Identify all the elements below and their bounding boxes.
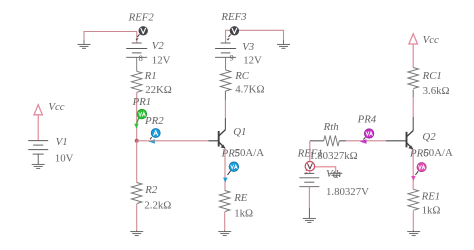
battery V3	[215, 43, 236, 57]
svg-text:RE: RE	[233, 192, 248, 204]
resistor RC1	[408, 68, 419, 89]
wire R2 to ground	[136, 204, 138, 231]
svg-text:Q1: Q1	[233, 126, 246, 138]
ground (REF3 net, top-middle)	[277, 44, 290, 48]
ground (REF2 net, top-left)	[78, 44, 91, 48]
svg-text:1.80327V: 1.80327V	[326, 186, 369, 198]
probe PR2	[148, 129, 160, 144]
svg-text:1kΩ: 1kΩ	[422, 205, 441, 217]
wire node A to Q1 base	[137, 140, 209, 142]
svg-text:V1: V1	[56, 136, 68, 148]
wire REF3 net: V3 top to ground	[226, 30, 284, 44]
wire Vth to ground	[308, 187, 310, 219]
power flag Vcc (right)	[409, 34, 418, 68]
wire V3 to RC	[225, 57, 227, 70]
svg-text:9: 9	[230, 54, 234, 63]
svg-text:REF3: REF3	[220, 11, 247, 23]
probe REF3	[227, 26, 239, 41]
svg-text:PR1: PR1	[132, 96, 152, 108]
svg-text:V3: V3	[242, 41, 255, 53]
wire Q1 emitter to RE	[224, 148, 226, 190]
svg-text:PR2: PR2	[144, 115, 164, 127]
svg-text:R2: R2	[144, 184, 158, 196]
probe PR6	[411, 163, 426, 182]
svg-text:2.2kΩ: 2.2kΩ	[144, 200, 171, 212]
wire R1 to node A	[136, 92, 138, 141]
svg-text:50A/A: 50A/A	[235, 147, 265, 159]
svg-text:10V: 10V	[55, 153, 74, 165]
resistor RC	[220, 70, 231, 91]
svg-text:Vcc: Vcc	[48, 101, 64, 113]
ground (REF1 net)	[329, 173, 342, 177]
ground (below RE)	[218, 231, 231, 236]
probe REF1 (selected)	[305, 162, 315, 175]
svg-text:R1: R1	[144, 70, 157, 82]
wire REF2 net: ground to V2 top	[84, 32, 137, 45]
wire RE to ground	[224, 212, 226, 231]
wire Rth corner down to Vth	[309, 141, 311, 174]
power flag Vcc (left)	[34, 105, 42, 141]
svg-text:3.6kΩ: 3.6kΩ	[423, 85, 450, 97]
svg-text:12V: 12V	[243, 55, 262, 67]
svg-text:REF1: REF1	[297, 147, 323, 159]
resistor Rth (horizontal)	[310, 136, 346, 147]
resistor R1	[131, 71, 142, 92]
battery V2	[126, 43, 147, 57]
transistor Q2	[407, 131, 414, 150]
resistor RE	[219, 191, 230, 212]
svg-text:1kΩ: 1kΩ	[234, 208, 253, 220]
svg-text:12V: 12V	[152, 55, 171, 67]
svg-text:RC: RC	[234, 70, 250, 82]
wire Rth to Q2 base	[346, 140, 386, 142]
wire RC1 to Q2 collector	[412, 90, 414, 131]
svg-text:REF2: REF2	[128, 12, 155, 24]
svg-text:Vth: Vth	[326, 168, 341, 180]
ground (below R2)	[130, 231, 143, 236]
ground (below Vth)	[303, 218, 316, 222]
wire Q2 base lead	[386, 140, 406, 142]
wire RE1 to ground	[412, 211, 414, 231]
svg-text:PR4: PR4	[357, 113, 377, 125]
battery V1	[28, 141, 48, 155]
wire Q1 base lead	[209, 140, 219, 142]
wire RC to Q1 collector	[224, 91, 226, 130]
svg-text:4.7KΩ: 4.7KΩ	[235, 84, 264, 96]
svg-text:Vcc: Vcc	[423, 34, 439, 46]
svg-text:22KΩ: 22KΩ	[145, 84, 172, 96]
probe PR4	[360, 129, 374, 144]
wire node A to R2	[136, 141, 138, 183]
wire Q2 emitter to RE1	[412, 149, 414, 189]
probe PR5	[223, 162, 239, 183]
ground (below RE1)	[407, 231, 420, 236]
ground (below V1)	[32, 164, 45, 168]
transistor Q1	[219, 130, 226, 149]
svg-text:RC1: RC1	[422, 70, 442, 82]
svg-text:RE1: RE1	[421, 190, 441, 202]
svg-text:V2: V2	[152, 40, 165, 52]
probe PR1	[134, 109, 147, 128]
svg-text:8: 8	[139, 54, 143, 63]
wire V2 to R1	[136, 57, 138, 71]
battery Vth	[299, 173, 319, 186]
wire V1 to ground	[37, 154, 39, 164]
resistor R2	[131, 183, 142, 204]
node A junction dot	[135, 139, 139, 143]
resistor RE1	[408, 189, 419, 210]
wire REF1 probe to ground	[310, 167, 336, 173]
svg-text:50A/A: 50A/A	[423, 147, 453, 159]
svg-text:Q2: Q2	[422, 131, 436, 143]
probe REF2	[136, 26, 148, 41]
svg-text:Rth: Rth	[323, 121, 339, 133]
